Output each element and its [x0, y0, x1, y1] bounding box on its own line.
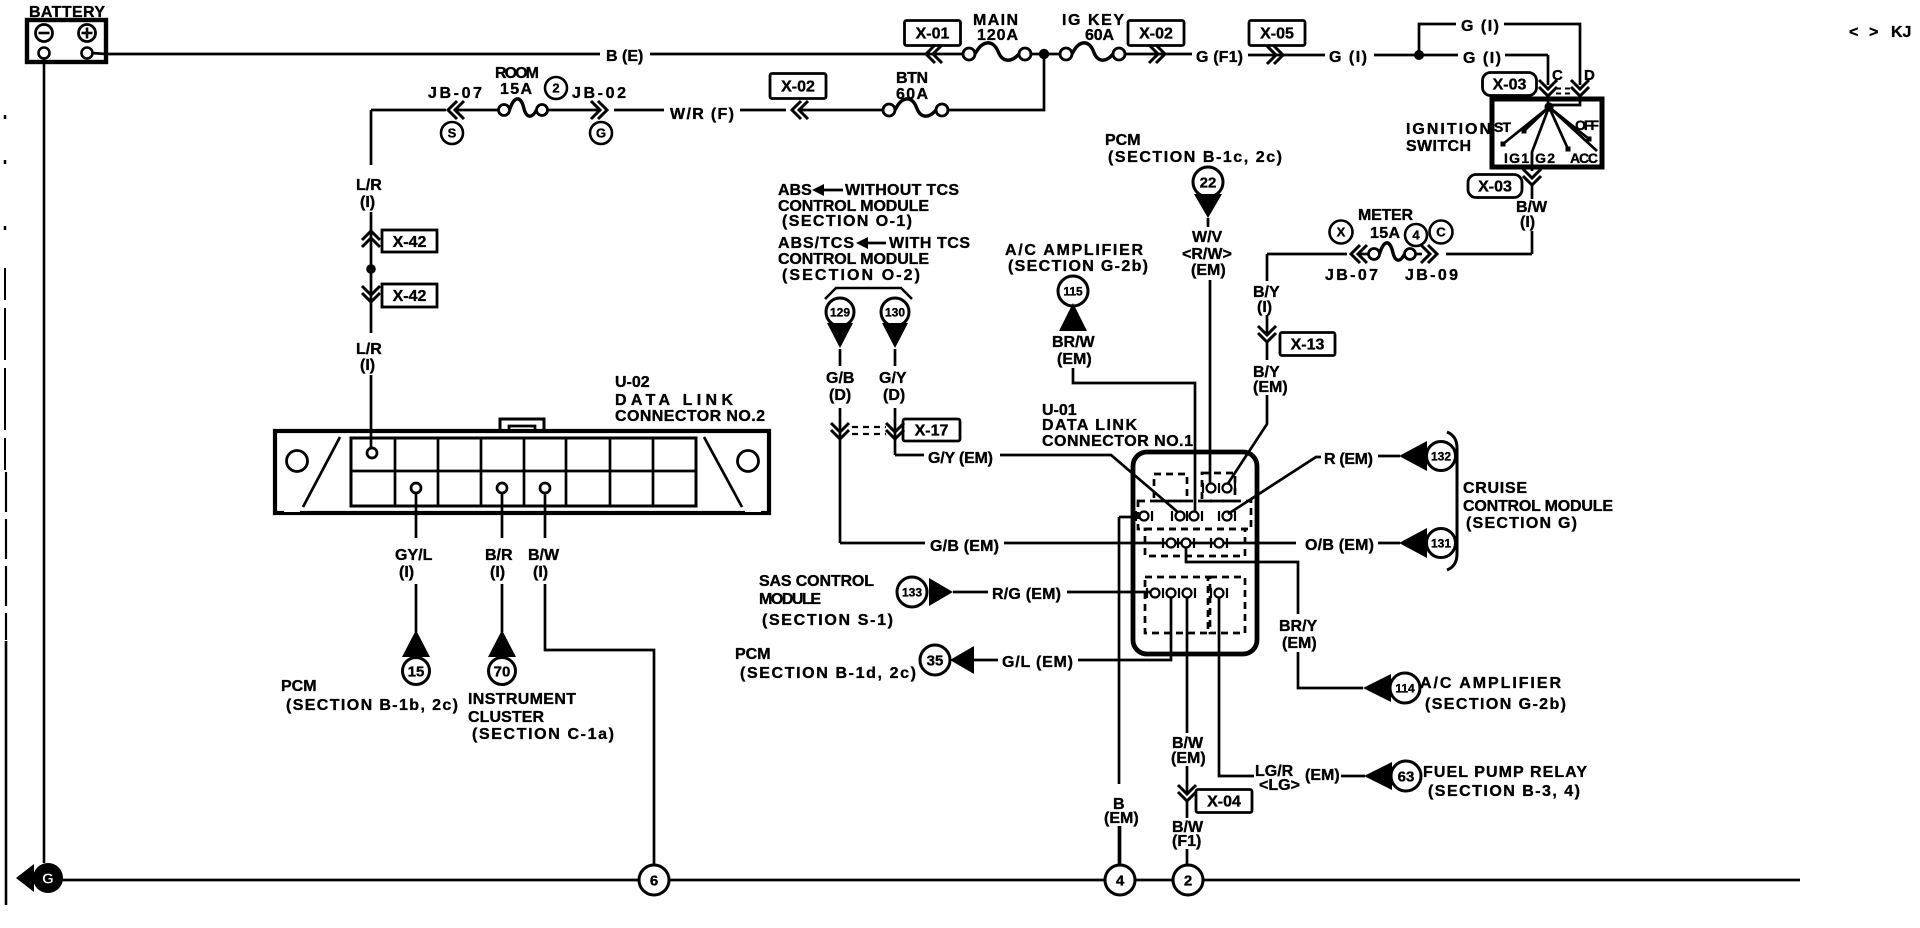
- svg-text:(EM): (EM): [1305, 767, 1340, 784]
- svg-text:G: G: [596, 126, 606, 141]
- svg-text:(SECTION B-1b, 2c): (SECTION B-1b, 2c): [286, 697, 458, 714]
- svg-text:X-02: X-02: [1139, 26, 1173, 43]
- wire B (EM) junction to splice4: [1119, 826, 1122, 865]
- svg-text:60A: 60A: [1085, 27, 1114, 44]
- wire B/W (I) to splice 6: [544, 493, 547, 538]
- svg-text:(SECTION G-2b): (SECTION G-2b): [1425, 696, 1566, 713]
- junction X-42: [366, 264, 376, 274]
- svg-text:(D): (D): [829, 387, 851, 404]
- svg-text:G: G: [42, 871, 54, 888]
- svg-text:R/G (EM): R/G (EM): [992, 586, 1061, 603]
- wire G/B (EM) and O/B (EM) row: [840, 542, 925, 545]
- svg-text:(F1): (F1): [1172, 833, 1201, 850]
- connector X-01: [905, 21, 961, 46]
- splice 2: [1173, 865, 1203, 895]
- svg-text:ST: ST: [1494, 119, 1511, 135]
- svg-text:X-42: X-42: [393, 234, 427, 251]
- wire B/W(I) to meter fuse: [1446, 253, 1532, 256]
- svg-text:G/Y: G/Y: [879, 370, 907, 387]
- svg-text:114: 114: [1395, 681, 1415, 695]
- pin ref 133: [897, 577, 927, 607]
- svg-text:KJ: KJ: [1891, 24, 1911, 41]
- ignition switch SW1: [1492, 99, 1602, 167]
- junction block JB-07 meter: [1351, 245, 1367, 263]
- svg-text:(I): (I): [399, 564, 414, 581]
- svg-text:X-01: X-01: [916, 26, 950, 43]
- connector X-13: [1258, 326, 1276, 342]
- wire to junction: [1031, 53, 1061, 56]
- junction block JB-07: [448, 101, 464, 119]
- arrow to 115: [1059, 303, 1087, 331]
- wire ground bus: [60, 879, 639, 882]
- svg-text:INSTRUMENT: INSTRUMENT: [468, 691, 576, 708]
- svg-text:(EM): (EM): [1253, 379, 1288, 396]
- wire B (EM): [1119, 516, 1140, 519]
- svg-text:G/B (EM): G/B (EM): [930, 538, 999, 555]
- connector X-04: [1178, 785, 1196, 801]
- U-01 pins row4: [1146, 588, 1148, 598]
- wire W/V: [1207, 218, 1210, 227]
- svg-text:B/R: B/R: [485, 547, 513, 564]
- svg-text:<: <: [1849, 24, 1858, 41]
- svg-text:PCM: PCM: [735, 646, 771, 663]
- svg-text:G/Y (EM): G/Y (EM): [928, 450, 993, 467]
- wire B/Y (I): [1266, 254, 1269, 281]
- connector X-42 upper: [362, 231, 380, 247]
- svg-text:L/R: L/R: [356, 177, 382, 194]
- svg-text:CRUISE: CRUISE: [1463, 480, 1527, 497]
- svg-text:ABS/TCS: ABS/TCS: [778, 235, 854, 252]
- connector X-05: [1249, 21, 1305, 46]
- svg-text:MODULE: MODULE: [759, 591, 821, 608]
- svg-text:15: 15: [408, 663, 425, 680]
- connector X-17: [831, 423, 849, 439]
- junction main/BTN: [1039, 49, 1049, 59]
- svg-text:(I): (I): [533, 564, 548, 581]
- svg-text:(SECTION S-1): (SECTION S-1): [762, 612, 893, 629]
- svg-text:X-42: X-42: [393, 288, 427, 305]
- splice 4: [1105, 865, 1135, 895]
- svg-text:(SECTION G-2b): (SECTION G-2b): [1008, 258, 1148, 275]
- svg-text:>: >: [1869, 24, 1878, 41]
- svg-text:DATA LINK: DATA LINK: [1042, 417, 1137, 434]
- svg-text:CLUSTER: CLUSTER: [468, 709, 544, 726]
- wire LG/R (EM): [1219, 597, 1254, 776]
- dashed link C-D: [1556, 88, 1573, 90]
- connector X-03 lower: [1468, 175, 1522, 198]
- svg-text:G (I): G (I): [1463, 50, 1501, 67]
- svg-text:(EM): (EM): [1104, 810, 1139, 827]
- arrow to fuel pump relay 63: [1364, 762, 1392, 790]
- pin GY/L: [411, 483, 421, 493]
- svg-text:(I): (I): [360, 357, 375, 374]
- svg-text:G (I): G (I): [1461, 18, 1499, 35]
- arrow to A/C 114: [1363, 674, 1391, 702]
- wire L/R (I): [370, 110, 373, 165]
- svg-text:(EM): (EM): [1282, 635, 1317, 652]
- svg-text:(I): (I): [490, 564, 505, 581]
- pin B/W: [540, 483, 550, 493]
- svg-text:SWITCH: SWITCH: [1406, 138, 1471, 155]
- svg-text:WITH TCS: WITH TCS: [889, 235, 970, 252]
- svg-text:(I): (I): [1257, 299, 1272, 316]
- svg-text:BR/W: BR/W: [1052, 334, 1096, 351]
- svg-text:ACC: ACC: [1570, 150, 1598, 166]
- ground G: [16, 864, 34, 892]
- svg-text:C: C: [1436, 225, 1446, 240]
- svg-text:ABS: ABS: [778, 182, 812, 199]
- svg-text:METER: METER: [1358, 207, 1413, 224]
- svg-text:22: 22: [1200, 174, 1217, 191]
- svg-text:JB-09: JB-09: [1405, 267, 1458, 284]
- wire to X-02: [740, 109, 786, 112]
- arrow from 22: [1194, 194, 1222, 218]
- svg-text:BR/Y: BR/Y: [1279, 618, 1318, 635]
- pin ref 35: [920, 645, 950, 675]
- wire B/W (EM): [1186, 597, 1189, 733]
- svg-text:JB-02: JB-02: [572, 85, 626, 102]
- wire C into switch: [1547, 96, 1550, 107]
- svg-text:X-02: X-02: [781, 79, 815, 96]
- wire to G(I) junction: [1374, 54, 1419, 57]
- svg-text:35: 35: [927, 652, 944, 669]
- svg-text:130: 130: [885, 305, 905, 319]
- svg-text:(D): (D): [883, 387, 905, 404]
- svg-text:R (EM): R (EM): [1324, 451, 1373, 468]
- wire B(E) from battery: [92, 53, 106, 54]
- svg-text:132: 132: [1431, 449, 1451, 463]
- U-01 pins row1: [1202, 483, 1204, 493]
- svg-text:X-17: X-17: [915, 423, 949, 440]
- pin L/R: [367, 448, 377, 458]
- wire G/Y (D): [894, 349, 897, 366]
- connector X-03 upper: [1483, 73, 1537, 96]
- svg-text:120A: 120A: [977, 27, 1018, 44]
- svg-text:(EM): (EM): [1191, 262, 1226, 279]
- junction G(I): [1414, 50, 1424, 60]
- svg-text:6: 6: [650, 872, 658, 889]
- svg-text:BTN: BTN: [896, 70, 928, 87]
- svg-text:U-02: U-02: [615, 374, 650, 391]
- svg-text:PCM: PCM: [281, 678, 317, 695]
- wire B(E) cont: [650, 53, 963, 56]
- pin ref 130: [881, 298, 909, 326]
- svg-text:<LG>: <LG>: [1259, 777, 1300, 794]
- svg-text:X-04: X-04: [1207, 794, 1241, 811]
- wire D into switch: [1551, 96, 1580, 105]
- svg-text:GY/L: GY/L: [395, 547, 433, 564]
- svg-text:X-13: X-13: [1291, 337, 1325, 354]
- arrow from 129: [827, 323, 853, 348]
- svg-text:15A: 15A: [500, 81, 532, 98]
- wire W/R(F) room line: [371, 109, 446, 112]
- svg-text:X-03: X-03: [1478, 179, 1512, 196]
- wire meter line west: [1267, 253, 1347, 256]
- svg-text:(SECTION O-2): (SECTION O-2): [782, 267, 920, 284]
- arrow to cruise 131: [1399, 528, 1427, 558]
- U-01 pins row2: [1135, 511, 1137, 521]
- svg-text:DATA LINK: DATA LINK: [615, 392, 733, 409]
- svg-text:133: 133: [902, 585, 922, 599]
- connector X-02 lower: [770, 74, 826, 99]
- wire B/R (I): [501, 493, 504, 538]
- svg-text:(EM): (EM): [1171, 750, 1206, 767]
- arrow to 35: [950, 646, 974, 674]
- svg-text:S: S: [448, 126, 457, 141]
- ref circle C: [1430, 221, 1453, 244]
- svg-text:IG2: IG2: [1530, 150, 1555, 166]
- wire R (EM): [1228, 457, 1321, 514]
- junction block JB-02: [591, 101, 607, 119]
- wire to X-05: [1248, 54, 1325, 57]
- bracket cruise control module: [1447, 432, 1457, 570]
- page edge artifact: [4, 115, 7, 119]
- arrow from 133: [929, 578, 953, 606]
- svg-text:X-05: X-05: [1260, 26, 1294, 43]
- svg-text:115: 115: [1063, 284, 1083, 298]
- bracket ABS connectors: [825, 288, 912, 299]
- wire G(F1): [1125, 53, 1192, 56]
- wire G(I) upper branch: [1419, 24, 1456, 55]
- svg-text:70: 70: [494, 663, 511, 680]
- svg-text:15A: 15A: [1370, 225, 1400, 242]
- wire B/Y to U-01: [1227, 395, 1267, 485]
- svg-text:SAS CONTROL: SAS CONTROL: [759, 573, 874, 590]
- U-01 pins row3: [1162, 538, 1164, 548]
- svg-text:B/W: B/W: [528, 547, 560, 564]
- wire G(I) lower to C: [1419, 54, 1458, 57]
- pin ref 22: [1193, 167, 1223, 197]
- pin ref 129: [826, 298, 854, 326]
- svg-text:(SECTION B-1c, 2c): (SECTION B-1c, 2c): [1108, 149, 1282, 166]
- wire G/L (EM): [974, 659, 998, 662]
- svg-text:G/L (EM): G/L (EM): [1002, 654, 1073, 671]
- wire battery negative to ground: [43, 59, 46, 864]
- svg-text:G/B: G/B: [826, 370, 854, 387]
- arrow to cruise 132: [1399, 441, 1427, 471]
- pin B/R: [497, 483, 507, 493]
- svg-text:63: 63: [1398, 768, 1415, 785]
- svg-text:CONTROL MODULE: CONTROL MODULE: [1463, 498, 1613, 515]
- svg-text:(SECTION C-1a): (SECTION C-1a): [472, 726, 614, 743]
- svg-text:<R/W>: <R/W>: [1182, 246, 1232, 263]
- junction block JB-09: [1421, 245, 1437, 263]
- svg-text:(EM): (EM): [1057, 351, 1092, 368]
- wire G/B (D): [839, 349, 842, 366]
- svg-text:JB-07: JB-07: [428, 85, 482, 102]
- svg-text:IG1: IG1: [1504, 150, 1529, 166]
- wire G/Y (EM): [895, 454, 924, 457]
- svg-text:4: 4: [1116, 872, 1125, 889]
- svg-text:131: 131: [1431, 536, 1451, 550]
- wire R/G (EM): [953, 591, 988, 594]
- svg-text:A/C AMPLIFIER: A/C AMPLIFIER: [1005, 242, 1143, 259]
- svg-text:X-03: X-03: [1493, 77, 1527, 94]
- splice 4 ref circle: [1405, 224, 1427, 246]
- svg-text:129: 129: [830, 305, 850, 319]
- svg-text:4: 4: [1412, 228, 1420, 243]
- svg-text:JB-07: JB-07: [1325, 267, 1378, 284]
- svg-text:WITHOUT TCS: WITHOUT TCS: [845, 182, 959, 199]
- svg-text:(I): (I): [360, 194, 375, 211]
- arrow to PCM 15: [402, 630, 430, 657]
- svg-text:(I): (I): [1520, 214, 1535, 231]
- pin ref 115: [1058, 276, 1088, 306]
- svg-text:L/R: L/R: [356, 341, 382, 358]
- svg-text:(SECTION O-1): (SECTION O-1): [782, 213, 912, 230]
- arrow to instrument cluster 70: [488, 630, 516, 657]
- svg-text:O/B (EM): O/B (EM): [1305, 537, 1374, 554]
- splice 6: [639, 865, 669, 895]
- svg-text:CONTROL MODULE: CONTROL MODULE: [778, 251, 929, 268]
- svg-text:2: 2: [1184, 872, 1192, 889]
- svg-text:A/C AMPLIFIER: A/C AMPLIFIER: [1420, 675, 1561, 692]
- svg-text:2: 2: [552, 81, 559, 96]
- switch wiper contacts: [1503, 107, 1549, 144]
- svg-text:G (F1): G (F1): [1196, 49, 1243, 66]
- wire BR/Y (EM): [1186, 547, 1298, 614]
- wire GY/L (I): [415, 493, 418, 538]
- svg-text:CONNECTOR NO.1: CONNECTOR NO.1: [1042, 433, 1193, 450]
- svg-text:PCM: PCM: [1105, 132, 1141, 149]
- svg-text:W/V: W/V: [1192, 229, 1223, 246]
- svg-text:ROOM: ROOM: [495, 65, 539, 82]
- arrow from 130: [882, 323, 908, 348]
- wire BTN to junction: [948, 54, 1044, 110]
- svg-text:X: X: [1337, 225, 1346, 240]
- wire G(I) upper to D: [1504, 24, 1580, 85]
- svg-text:B (E): B (E): [606, 48, 643, 65]
- ref circle X: [1330, 221, 1353, 244]
- svg-text:FUEL PUMP RELAY: FUEL PUMP RELAY: [1423, 764, 1587, 781]
- wire B/W out of switch: [1532, 107, 1549, 171]
- svg-text:CONNECTOR NO.2: CONNECTOR NO.2: [615, 408, 765, 425]
- switch pivot: [1544, 102, 1553, 111]
- svg-text:W/R (F): W/R (F): [670, 106, 734, 123]
- svg-text:G (I): G (I): [1329, 49, 1367, 66]
- connector X-42 lower: [362, 286, 380, 302]
- svg-text:(SECTION G): (SECTION G): [1466, 515, 1577, 532]
- connector X-02 top: [1128, 21, 1184, 46]
